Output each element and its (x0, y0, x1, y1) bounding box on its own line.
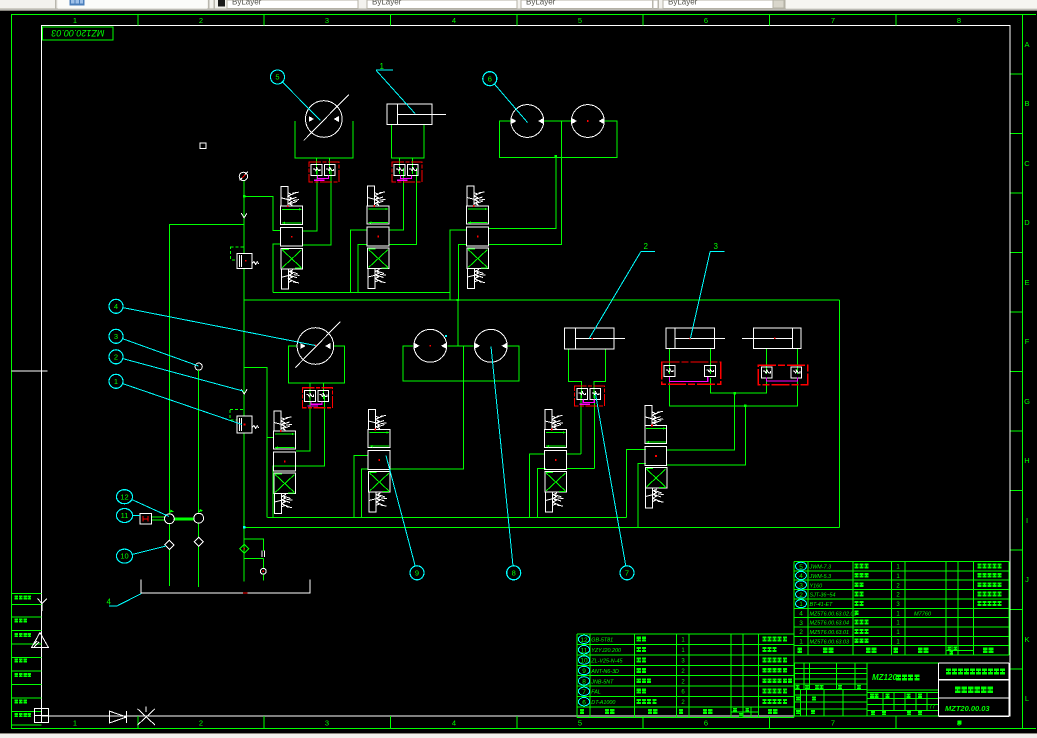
wire to valve V1 P (244, 196, 281, 230)
flow arrow on line 2 (241, 389, 247, 394)
callout 11 (117, 509, 133, 523)
wire V1 A to check box (303, 168, 317, 231)
svg-text:ByLayer: ByLayer (232, 0, 262, 7)
svg-text:SJT-36~54: SJT-36~54 (810, 593, 836, 599)
svg-text:9: 9 (415, 568, 419, 577)
svg-text:7: 7 (831, 719, 835, 728)
toolbar panel light (58, 0, 207, 9)
cylinder C1 (564, 328, 625, 349)
cylinder C3 pins (765, 349, 767, 374)
svg-text:2: 2 (799, 629, 803, 636)
toolbar color swatch (218, 0, 225, 7)
aux pump SP1 (165, 514, 175, 524)
wire valve V3 T (459, 244, 468, 300)
svg-text:JWM-7.3: JWM-7.3 (809, 565, 832, 571)
wire CB4-CB5 lower link (669, 378, 797, 406)
callout 2 (109, 350, 123, 364)
svg-text:M7760: M7760 (914, 611, 932, 617)
manifold rect right (838, 300, 840, 528)
valve V6 (545, 410, 567, 513)
cylinder C2 (666, 328, 725, 349)
tank bus lower (268, 517, 627, 519)
status strip (0, 734, 1037, 738)
zone tick right 6 (1011, 371, 1023, 373)
valve V2 (367, 186, 389, 289)
svg-text:MZ5T6.00.63.04: MZ5T6.00.63.04 (810, 621, 850, 627)
svg-text:J: J (1025, 575, 1029, 584)
zone tick top 5 (642, 15, 644, 26)
parts list right (794, 562, 1009, 656)
pump mid drop (391, 346, 464, 469)
motor M1 pins (316, 158, 318, 174)
svg-text:ZL-V25-N-45: ZL-V25-N-45 (590, 659, 623, 665)
pump mid feed (560, 121, 562, 157)
svg-text:4: 4 (452, 719, 456, 728)
pump P2 (571, 105, 604, 138)
svg-text:4: 4 (114, 302, 118, 311)
relief valve RV2 pilot box (230, 410, 244, 420)
toolbar field 4 (663, 0, 785, 9)
wire valve V1 T (273, 244, 281, 292)
cylinder C3 (742, 328, 801, 349)
grip tick (445, 335, 447, 337)
valve V5 (368, 410, 390, 513)
wire gauge drop (243, 181, 245, 300)
svg-text:MZ120.00.03: MZ120.00.03 (51, 28, 104, 38)
wire pump line left (169, 224, 244, 514)
svg-text:8: 8 (957, 16, 961, 25)
toolbar icon (blue grid) (70, 0, 85, 6)
svg-text:B: B (1024, 99, 1029, 108)
zone tick right 5 (1011, 311, 1023, 313)
relief drop line lower (243, 300, 245, 416)
svg-text:1: 1 (114, 377, 118, 386)
zone band line right (1022, 15, 1024, 729)
wire to valve V7 A (666, 393, 735, 450)
svg-text:4: 4 (452, 16, 456, 25)
svg-text:ByLayer: ByLayer (526, 0, 556, 7)
wire V2 A to check box (389, 168, 403, 230)
check block CB1 (309, 162, 339, 182)
zone tick right 7 (1011, 430, 1023, 432)
svg-text:10: 10 (120, 552, 128, 561)
valve seat marks (262, 550, 265, 556)
port circle P (260, 568, 266, 574)
check block CB5 (758, 365, 807, 385)
toolbar field 1 (227, 0, 358, 9)
filter F1 (140, 514, 151, 525)
zone tick top 6 (769, 15, 771, 26)
wire valve V2 P (351, 230, 368, 292)
fork symbol (38, 599, 47, 612)
valve V4 (274, 411, 296, 514)
pump P3 (414, 329, 447, 362)
hydraulic motor M2 (295, 322, 340, 368)
tank (141, 579, 310, 593)
check block CB4 (662, 362, 721, 384)
margin strip table (12, 593, 42, 724)
toolbar field 2 (367, 0, 517, 9)
svg-text:77: 77 (929, 705, 935, 711)
wire valve V2 T (358, 244, 368, 292)
svg-text:I: I (1026, 516, 1028, 525)
svg-text:MZ5T6.00.63.02.01: MZ5T6.00.63.02.01 (810, 611, 857, 617)
svg-text:DT-A1000: DT-A1000 (591, 700, 615, 706)
zone tick bottom 4 (516, 716, 518, 729)
motor M2 pins (309, 383, 311, 399)
datum triangle (32, 633, 49, 648)
toolbar separator (55, 0, 56, 9)
zone tick bottom 3 (390, 716, 392, 729)
sheet centre mark (12, 370, 48, 372)
svg-text:6: 6 (704, 719, 708, 728)
svg-text:BT-41-ET: BT-41-ET (810, 602, 834, 608)
callout 7 (620, 566, 634, 580)
svg-text:2: 2 (199, 16, 203, 25)
wire V4 crossing (273, 394, 325, 518)
relief valve RV1 (237, 253, 252, 268)
valve V7 (645, 406, 667, 509)
svg-text:1: 1 (380, 62, 385, 71)
svg-text:F: F (1025, 337, 1030, 346)
drawing number stamp (43, 27, 114, 40)
wire to valve V4 (244, 368, 267, 518)
motor M2 bracket (289, 346, 345, 383)
main bus top (244, 299, 839, 301)
svg-text:ANT-N6-3D: ANT-N6-3D (590, 669, 619, 675)
wire valve V3 P (450, 230, 467, 300)
relief valve RV2 (237, 416, 252, 433)
toolbar background (0, 0, 1037, 10)
zone tick bottom 1 (137, 716, 139, 729)
cylinder C2 pins (668, 349, 670, 374)
cylinder CT bracket (391, 125, 424, 158)
callout 5 (271, 70, 285, 84)
svg-text:3: 3 (114, 332, 118, 341)
check block CB3 pins down (580, 392, 582, 454)
pump pair bracket (500, 121, 617, 157)
grip junction (734, 392, 736, 394)
svg-text:3: 3 (325, 16, 329, 25)
pump P1 (511, 105, 544, 138)
callout 9 (410, 566, 424, 580)
valve V3 (467, 186, 489, 289)
grip junction cyan (243, 526, 246, 529)
projection symbol (34, 709, 48, 723)
wire V7 T (638, 464, 646, 528)
svg-text:7: 7 (625, 568, 629, 577)
zone tick top 4 (516, 15, 518, 26)
svg-text:6: 6 (704, 16, 708, 25)
wire V3 B to pumps (489, 121, 562, 244)
callout 8 (507, 566, 521, 580)
svg-text:K: K (1024, 635, 1029, 644)
valve V1 (281, 186, 303, 288)
grip bottom right (957, 720, 961, 724)
motor M1 bracket (295, 121, 353, 158)
svg-text:4: 4 (799, 611, 803, 618)
check block CB3 (575, 386, 605, 406)
tank return bus top group (273, 291, 450, 293)
svg-text:H: H (1024, 456, 1029, 465)
pressure gauge (239, 172, 247, 180)
svg-text:6: 6 (488, 74, 492, 83)
svg-text:L: L (1025, 694, 1029, 703)
zone tick bottom 6 (769, 716, 771, 729)
svg-text:5: 5 (578, 16, 582, 25)
aux pump SP2 (194, 513, 204, 523)
svg-text:YZYJ20.200: YZYJ20.200 (591, 648, 621, 654)
svg-text:3: 3 (799, 620, 803, 627)
svg-text:E: E (1024, 278, 1029, 287)
svg-text:3: 3 (714, 242, 719, 251)
pump feed from bus (457, 300, 459, 346)
toolbar separators 2 (652, 0, 653, 9)
svg-text:2: 2 (114, 352, 118, 361)
wire V4 A (296, 394, 310, 451)
zone tick top 2 (263, 15, 265, 26)
svg-text:G: G (1024, 397, 1030, 406)
zone tick right 9 (1011, 549, 1023, 551)
svg-text:ByLayer: ByLayer (372, 0, 402, 7)
svg-text:1: 1 (73, 719, 77, 728)
wire V3 A to pumps (489, 156, 556, 228)
svg-text:MZ5T6.00.63.03: MZ5T6.00.63.03 (810, 639, 850, 645)
check block CB2 (392, 162, 422, 182)
main bus bottom (244, 526, 839, 528)
svg-text:A: A (1024, 40, 1029, 49)
svg-text:MZT20.00.03: MZT20.00.03 (945, 704, 990, 713)
check unit piping (244, 539, 263, 551)
zone tick top 3 (390, 15, 392, 26)
pump pair bracket lower (403, 346, 519, 381)
svg-text:ByLayer: ByLayer (668, 0, 698, 7)
callout 4 (109, 299, 123, 313)
zone tick bottom 5 (642, 716, 644, 729)
zone tick right 1 (1011, 73, 1023, 75)
gauge port circle (195, 363, 202, 370)
wire to valve V7 B (666, 406, 746, 465)
wire CB4-CB5 upper link (711, 378, 767, 393)
callout 12 (117, 490, 133, 504)
suction line pump SP2 (198, 370, 200, 513)
svg-text:7: 7 (831, 16, 835, 25)
zone tick right 10 (1011, 609, 1023, 611)
svg-text:D: D (1024, 218, 1030, 227)
flow arrow on line (241, 213, 247, 218)
svg-text:1: 1 (73, 16, 77, 25)
cone symbol (109, 711, 126, 723)
relief valve RV1 pilot box (231, 247, 244, 260)
wire V6 P (530, 454, 545, 518)
wire V5 P (354, 456, 368, 518)
svg-text:3: 3 (325, 719, 329, 728)
svg-text:FAL: FAL (591, 690, 601, 696)
callout 10 (117, 549, 133, 563)
check diamond D2 (194, 537, 203, 546)
callout 6 (483, 72, 497, 86)
svg-text:GB-5T81: GB-5T81 (591, 638, 613, 644)
callout 1 (109, 374, 123, 388)
blip square (200, 143, 206, 148)
svg-text:12: 12 (120, 492, 128, 501)
svg-text:5: 5 (275, 73, 279, 82)
grip junction (243, 195, 245, 197)
title block (794, 663, 938, 716)
zone tick right 4 (1011, 252, 1023, 254)
parts list left (577, 634, 794, 717)
pump drop line (555, 156, 557, 228)
svg-text:MZ120: MZ120 (872, 673, 897, 682)
grip junction (457, 299, 459, 301)
zone tick top 1 (137, 15, 139, 26)
suction line pump SP1 (168, 524, 170, 541)
zone tick right 11 (1011, 668, 1023, 670)
wire V1 B to check box (303, 168, 331, 245)
svg-text:8: 8 (512, 568, 516, 577)
wire V5 T (362, 469, 369, 517)
pump link line (174, 518, 194, 521)
svg-text:11: 11 (121, 511, 129, 520)
wire V7 P (626, 449, 645, 517)
svg-text:5: 5 (578, 719, 582, 728)
grip junction (555, 155, 557, 157)
check block CBC (303, 388, 333, 408)
zone tick right 8 (1011, 490, 1023, 492)
svg-text:1: 1 (799, 639, 803, 646)
check diamond D1 (165, 540, 174, 549)
callout 3 (109, 329, 123, 343)
toolbar field 3 (521, 0, 658, 9)
toolbar separators (208, 0, 209, 9)
pump P4 (474, 329, 507, 362)
wire V2 B to check box (389, 168, 416, 244)
svg-text:JWM-5.3: JWM-5.3 (809, 574, 832, 580)
svg-text:JNB-5NT: JNB-5NT (590, 679, 614, 685)
zone tick right 3 (1011, 192, 1023, 194)
zone tick bottom 7 (895, 716, 897, 729)
svg-text:2: 2 (199, 719, 203, 728)
cylinder CT pins (399, 158, 401, 174)
cut symbol (138, 707, 156, 726)
zone tick bottom 2 (263, 716, 265, 729)
zone tick right 2 (1011, 133, 1023, 135)
cylinder CT (387, 104, 446, 125)
cylinder C1 bracket (569, 349, 582, 398)
zone tick top 7 (895, 15, 897, 26)
svg-text:MZ5T6.00.63.01: MZ5T6.00.63.01 (810, 630, 850, 636)
svg-text:4: 4 (107, 598, 112, 607)
svg-text:Y160: Y160 (810, 583, 823, 589)
hydraulic motor M1 (304, 95, 349, 141)
svg-text:C: C (1024, 159, 1030, 168)
wire V6 T (538, 469, 546, 518)
check diamond D3 (240, 544, 249, 553)
svg-text:2: 2 (644, 242, 649, 251)
